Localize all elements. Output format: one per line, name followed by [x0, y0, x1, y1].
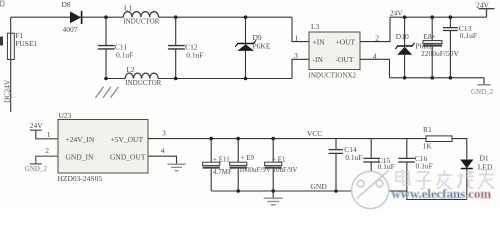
svg-text:24V: 24V — [30, 121, 44, 130]
watermark char 1 — [396, 169, 410, 185]
watermark logo circle — [352, 171, 389, 209]
wire top rail left — [11, 16, 292, 18]
svg-text:www.elecfans.com: www.elecfans.com — [392, 187, 492, 201]
node junctions gnd rail — [403, 76, 407, 80]
svg-text:4007: 4007 — [63, 25, 78, 34]
node junctions gnd rail bottom — [236, 189, 240, 193]
node junction E11 top — [209, 137, 213, 141]
svg-text:U23: U23 — [59, 111, 72, 120]
svg-text:-OUT: -OUT — [336, 55, 354, 64]
node junction E1 top — [271, 137, 275, 141]
inductor L1 — [123, 4, 159, 26]
svg-text:FUSE1: FUSE1 — [15, 39, 37, 48]
svg-text:D8: D8 — [62, 0, 71, 9]
corner tile mark — [1, 1, 5, 6]
diode D8 — [62, 0, 82, 34]
svg-text:24V: 24V — [476, 0, 490, 9]
node junction C11 top — [104, 15, 108, 19]
inductor L2 — [125, 65, 161, 87]
electrolytic capacitor E1 — [265, 139, 298, 191]
svg-text:INDUCTOR: INDUCTOR — [123, 18, 159, 26]
fuse F1 — [7, 33, 14, 59]
LED D1 — [460, 154, 493, 200]
node junction D10 top — [403, 15, 407, 19]
wire R1 to D1 — [452, 139, 467, 160]
svg-text:GND_IN: GND_IN — [66, 152, 94, 161]
electrolytic capacitor E8 — [421, 17, 460, 78]
node junction C13 top — [449, 15, 453, 19]
svg-text:4.7MF: 4.7MF — [213, 168, 232, 176]
electrolytic capacitor E11 — [203, 139, 232, 191]
power flag GND_2 lower-left — [25, 146, 58, 173]
svg-text:-IN: -IN — [313, 55, 324, 64]
watermark char 2 — [416, 172, 432, 189]
wire bottom rail — [106, 59, 309, 78]
capacitor C11 — [98, 17, 133, 78]
wire gnd rail bottom — [211, 191, 406, 200]
svg-text:0.1uF: 0.1uF — [345, 153, 362, 162]
svg-text:E8+: E8+ — [423, 32, 436, 41]
TVS diode D9 — [235, 17, 271, 78]
svg-text:1: 1 — [47, 130, 51, 139]
svg-text:2200uF/50V: 2200uF/50V — [421, 49, 460, 58]
svg-text:HZD03-24S05: HZD03-24S05 — [58, 174, 103, 183]
svg-text:1K: 1K — [423, 142, 433, 151]
edge connector tab — [0, 37, 3, 46]
svg-text:GND_2: GND_2 — [471, 88, 494, 96]
wire 24V rail right — [390, 16, 487, 18]
wire gnd rail right section — [390, 78, 485, 85]
svg-text:0.1uF: 0.1uF — [116, 50, 133, 59]
capacitor C14 — [329, 139, 363, 191]
wire pin4 to gnd rail — [360, 59, 390, 78]
node junction C12 top — [174, 15, 178, 19]
svg-text:0.1uF: 0.1uF — [416, 161, 433, 170]
svg-text:2: 2 — [375, 34, 379, 43]
watermark char 4 — [458, 170, 475, 188]
node junction E8 top — [430, 15, 434, 19]
capacitor C12 — [168, 17, 204, 78]
node junction D9 top — [244, 15, 248, 19]
capacitor C15 — [363, 139, 394, 191]
wire gnd rail lower right — [407, 199, 467, 201]
svg-text:P6KE: P6KE — [253, 41, 271, 50]
wire DC24V input vertical — [10, 17, 12, 112]
svg-text:+IN: +IN — [313, 38, 326, 47]
ground U23 — [168, 164, 186, 170]
svg-text:L3: L3 — [311, 22, 320, 31]
svg-text:24V: 24V — [390, 8, 404, 17]
wire pin4 to ground — [148, 156, 177, 164]
watermark char 5 — [479, 170, 495, 189]
svg-text:+ E9: + E9 — [241, 154, 255, 162]
power flag 24V lower-left — [30, 121, 58, 139]
svg-text:GND: GND — [311, 182, 328, 191]
svg-text:+ E11: + E11 — [213, 155, 230, 163]
svg-text:GND_2: GND_2 — [25, 165, 48, 173]
svg-text:3: 3 — [294, 51, 298, 60]
capacitor C13 — [443, 17, 477, 78]
node junction E9 top — [236, 137, 240, 141]
svg-text:DC24V: DC24V — [3, 79, 12, 103]
svg-text:D10: D10 — [396, 32, 409, 41]
svg-text:0.1uF: 0.1uF — [460, 31, 477, 40]
svg-text:GND_OUT: GND_OUT — [110, 152, 146, 161]
power flag GND_2 right — [471, 85, 494, 96]
wire pin1 drop — [292, 17, 309, 41]
wire VCC rail — [148, 138, 426, 140]
svg-text:+24V_IN: +24V_IN — [66, 135, 95, 144]
svg-text:3: 3 — [162, 128, 166, 137]
svg-text:INDUCTOR: INDUCTOR — [125, 79, 161, 87]
TVS diode D10 — [395, 17, 434, 78]
svg-text:D1: D1 — [480, 154, 489, 163]
svg-text:0.1uF: 0.1uF — [378, 162, 395, 171]
DC-DC module U23 — [58, 111, 149, 183]
svg-text:+5V_OUT: +5V_OUT — [111, 135, 144, 144]
electrolytic capacitor E9 — [230, 139, 271, 191]
ground under E1 — [264, 191, 283, 205]
svg-text:1: 1 — [295, 34, 299, 43]
svg-text:R1: R1 — [423, 125, 432, 134]
chassis ground slashes — [96, 87, 119, 98]
svg-text:2: 2 — [45, 146, 49, 155]
svg-text:L1: L1 — [124, 4, 133, 13]
watermark char 3 — [437, 171, 452, 190]
svg-text:4: 4 — [373, 51, 377, 60]
resistor R1 — [423, 125, 453, 150]
svg-text:0.1uF: 0.1uF — [186, 50, 203, 59]
wire pin2 to 24V rail — [360, 17, 390, 41]
svg-text:L2: L2 — [126, 65, 135, 74]
svg-text:+ E1: + E1 — [272, 155, 286, 163]
svg-text:INDUCTIONX2: INDUCTIONX2 — [309, 71, 357, 79]
svg-text:+OUT: +OUT — [336, 38, 356, 47]
filter module L3 — [309, 22, 361, 79]
node junctions bottom rail — [104, 77, 108, 81]
svg-text:4: 4 — [161, 146, 165, 155]
svg-text:10uF/9V: 10uF/9V — [273, 166, 298, 174]
svg-text:VCC: VCC — [307, 129, 322, 138]
capacitor C16 — [398, 139, 432, 200]
power flag 24V right — [476, 0, 495, 17]
